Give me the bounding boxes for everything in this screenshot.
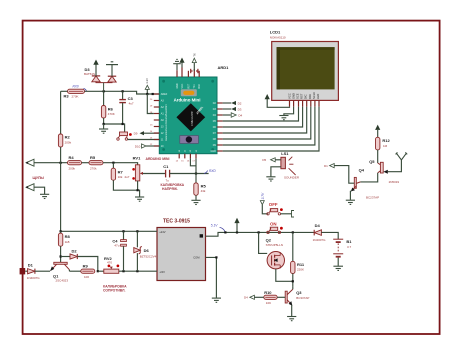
svg-text:2N5019: 2N5019 xyxy=(389,180,400,184)
wire bottom pins to C1 node xyxy=(190,158,196,165)
ground (LS1) xyxy=(266,177,275,181)
probe terminal P1 xyxy=(26,159,34,166)
svg-text:1M: 1M xyxy=(383,144,388,148)
svg-text:470: 470 xyxy=(107,260,112,264)
ground (LCD) xyxy=(279,116,288,120)
net label RXD xyxy=(204,169,216,174)
antenna AE1 xyxy=(396,152,408,160)
svg-text:D9: D9 xyxy=(134,132,138,136)
svg-text:470K: 470K xyxy=(108,112,115,116)
svg-text:4u7: 4u7 xyxy=(124,175,129,179)
pushbutton S1 xyxy=(117,132,132,140)
svg-text:200k: 200k xyxy=(65,140,72,144)
wire OFF right bracket xyxy=(281,211,294,218)
wire Q4 base xyxy=(334,166,354,184)
node probes junction xyxy=(60,162,62,164)
wire R5a to RV1 top xyxy=(103,163,138,165)
wire RV2 to TEC -24V xyxy=(119,270,157,272)
svg-text:TX: TX xyxy=(193,53,197,57)
power arrow (LCD VCC) xyxy=(265,94,270,99)
node R9/RV2 xyxy=(97,270,99,272)
ground (Q4) xyxy=(346,200,355,204)
node C4 bottom xyxy=(122,270,124,272)
terminal arrow (LS1 top) xyxy=(262,158,281,162)
wire probe2 to ground xyxy=(34,187,45,194)
ground (R5b) xyxy=(191,200,200,204)
module TEC 3-0915 xyxy=(157,218,206,280)
resistor R3 xyxy=(64,89,85,98)
svg-text:СОПРОТИВЛ.: СОПРОТИВЛ. xyxy=(103,288,126,292)
svg-text:GND: GND xyxy=(291,93,295,99)
svg-text:Q3: Q3 xyxy=(296,290,302,295)
svg-text:D4: D4 xyxy=(315,223,321,228)
wire D2 to R9/RV2 node xyxy=(77,257,98,272)
svg-text:D1: D1 xyxy=(28,263,34,268)
svg-text:STRUP5LLN: STRUP5LLN xyxy=(266,243,283,247)
svg-text:R6: R6 xyxy=(108,106,114,111)
pins ARD1 left xyxy=(154,94,160,146)
power arrow (3.7V rail) xyxy=(234,218,239,234)
node D6 bottom xyxy=(136,270,138,272)
svg-text:BC237AP: BC237AP xyxy=(366,196,379,200)
terminal arrow (Q4 base) xyxy=(324,164,334,168)
display LCD1 NOKIA5110 xyxy=(270,30,339,101)
wire D6 to LCD RST xyxy=(223,107,303,127)
svg-text:ATMEGA328P: ATMEGA328P xyxy=(191,111,194,126)
svg-text:TEC 3-0915: TEC 3-0915 xyxy=(163,218,190,224)
svg-text:100: 100 xyxy=(84,275,89,279)
wire D7 to LCD D/C xyxy=(223,107,307,133)
transistor Q4 xyxy=(351,167,379,199)
node R11 bottom xyxy=(292,280,294,282)
pins ARD1 top xyxy=(177,68,199,78)
svg-text:5.1V: 5.1V xyxy=(211,223,218,227)
svg-text:LCD1: LCD1 xyxy=(270,30,281,35)
capacitor C4 xyxy=(112,231,126,271)
capacitor C3 xyxy=(119,91,134,124)
terminal arrow row146 xyxy=(135,144,160,149)
connector tab (border) xyxy=(20,268,26,274)
resistor R12 xyxy=(375,125,390,163)
node Q2 gate xyxy=(258,231,260,233)
svg-text:D/C: D/C xyxy=(304,94,308,99)
svg-text:TX1: TX1 xyxy=(194,84,196,89)
pins ARD1 right xyxy=(217,103,223,151)
svg-text:SOUNDER: SOUNDER xyxy=(284,176,300,180)
svg-text:DIN: DIN xyxy=(308,94,312,99)
switch OFF xyxy=(267,202,283,215)
border frame xyxy=(23,21,440,334)
svg-text:BZT52C2V4: BZT52C2V4 xyxy=(140,255,157,259)
svg-text:RX0: RX0 xyxy=(199,83,201,88)
svg-text:47u: 47u xyxy=(114,244,119,248)
wire TEC COM xyxy=(206,257,217,297)
svg-text:C3: C3 xyxy=(128,96,134,101)
svg-text:RST: RST xyxy=(188,83,190,88)
ground (B1) xyxy=(333,266,343,270)
svg-text:R4: R4 xyxy=(69,155,75,160)
resistor R7 xyxy=(111,168,130,180)
node R6 bottom xyxy=(103,123,105,125)
ground (ARD1 top) xyxy=(173,59,181,70)
svg-text:VCC: VCC xyxy=(182,83,184,88)
svg-text:Q5: Q5 xyxy=(369,159,375,164)
wire button to pin row xyxy=(128,139,160,141)
svg-text:2SC4023: 2SC4023 xyxy=(56,279,69,283)
svg-text:R7: R7 xyxy=(118,170,124,175)
svg-text:D3: D3 xyxy=(238,107,242,111)
node R7 top xyxy=(112,162,114,164)
svg-text:SCLK: SCLK xyxy=(312,92,316,99)
ground (TEC COM) xyxy=(212,298,221,302)
svg-text:-24V: -24V xyxy=(159,270,165,274)
svg-text:200k: 200k xyxy=(69,167,76,171)
svg-text:GND: GND xyxy=(177,83,179,88)
svg-text:D6: D6 xyxy=(144,248,150,253)
svg-text:BAT54S: BAT54S xyxy=(84,72,95,76)
svg-text:SCE: SCE xyxy=(296,93,300,99)
ground (RV1) xyxy=(135,197,144,201)
terminal 3.7V down (OFF) xyxy=(260,192,268,214)
wire D4 to B1 xyxy=(321,232,338,239)
node rail C4 xyxy=(122,230,124,232)
svg-text:RV1: RV1 xyxy=(133,155,141,160)
capacitor C1 xyxy=(163,164,169,183)
svg-text:R10: R10 xyxy=(264,290,272,295)
resistor R5b xyxy=(194,174,207,201)
wire LCD GND to ground xyxy=(284,107,294,116)
wire Q4 emitter to ground xyxy=(349,191,352,200)
svg-text:220K: 220K xyxy=(297,268,304,272)
wire R4-R5 xyxy=(82,162,90,164)
battery B1 xyxy=(333,239,352,266)
probe terminal P2 xyxy=(26,184,34,191)
diode D3 (dual BAT54S) xyxy=(84,67,116,92)
svg-text:R12: R12 xyxy=(382,138,390,143)
power arrow (ARD1 VCC) xyxy=(179,58,184,68)
ground (R6) xyxy=(99,124,108,133)
node C3 top xyxy=(122,90,124,92)
svg-text:D4: D4 xyxy=(244,296,248,300)
svg-text:43k: 43k xyxy=(201,189,206,193)
wire RV1 bottom to ground xyxy=(138,181,140,197)
wire D8 to LCD DIN xyxy=(223,107,311,139)
svg-text:10K: 10K xyxy=(266,301,271,305)
svg-text:1k8: 1k8 xyxy=(65,240,70,244)
svg-text:3.3V: 3.3V xyxy=(145,78,149,84)
wire RV1 wiper to C1 xyxy=(143,173,166,175)
wire rail top to TEC +24V xyxy=(61,230,157,232)
svg-text:R5: R5 xyxy=(90,155,96,160)
wire GND to LCD LED xyxy=(223,107,319,151)
wire R6/C3 bottom row xyxy=(104,124,125,132)
svg-text:R9: R9 xyxy=(83,264,89,269)
svg-text:RST: RST xyxy=(300,93,304,99)
pins ARD1 bottom xyxy=(179,154,196,159)
svg-text:GND: GND xyxy=(210,150,216,153)
svg-text:1N4007G: 1N4007G xyxy=(313,238,327,242)
power bar symbol (D3 right) xyxy=(106,62,118,77)
node COM corner xyxy=(215,256,217,258)
svg-text:4u7: 4u7 xyxy=(129,102,134,106)
wire Q2 bottom xyxy=(276,269,293,281)
node rail R8 xyxy=(60,230,62,232)
node Q1 base / D2 xyxy=(60,255,62,257)
svg-text:10k: 10k xyxy=(118,175,123,179)
wire D1 to Q1 emitter xyxy=(35,270,50,272)
resistor R10 xyxy=(264,290,285,305)
svg-text:270k: 270k xyxy=(90,167,97,171)
svg-text:ЩУПЫ: ЩУПЫ xyxy=(33,176,45,180)
wire LCD VCC to power xyxy=(267,99,289,107)
resistor R6 xyxy=(101,91,114,124)
svg-text:www.arduino.cc/ArduinoBoardMin: www.arduino.cc/ArduinoBoardMini xyxy=(165,104,168,141)
terminal 3.3V arrow xyxy=(145,78,149,94)
node rail D6 xyxy=(136,230,138,232)
svg-text:ARDUINO MINI: ARDUINO MINI xyxy=(146,157,170,161)
terminal arrow (R10) xyxy=(244,295,264,299)
svg-text:Q2: Q2 xyxy=(266,237,272,242)
ground (probe2) xyxy=(40,194,49,198)
svg-text:Q4: Q4 xyxy=(359,167,365,172)
wire Q3 emitter to ground xyxy=(291,305,293,316)
resistor R8 xyxy=(58,231,70,262)
svg-text:R11: R11 xyxy=(297,262,305,267)
svg-text:D2: D2 xyxy=(238,101,242,105)
net label 5.1V xyxy=(211,223,225,232)
node D3 tap xyxy=(103,90,105,92)
wire AREF to A1 xyxy=(147,94,154,114)
svg-text:R3: R3 xyxy=(64,94,70,99)
resistor R9 xyxy=(69,264,94,279)
wire Q5 to antenna xyxy=(388,160,402,172)
svg-text:D4: D4 xyxy=(238,113,242,117)
svg-text:Arduino Mini: Arduino Mini xyxy=(174,98,201,103)
svg-text:RX0: RX0 xyxy=(73,85,79,89)
svg-text:ON: ON xyxy=(270,221,277,226)
wire LS1 bottom to ground xyxy=(271,167,281,177)
pin labels LCD1 xyxy=(287,92,320,99)
svg-text:R2: R2 xyxy=(65,135,71,140)
svg-text:270K: 270K xyxy=(72,95,79,99)
svg-text:VCC: VCC xyxy=(287,93,291,99)
resistor R2 xyxy=(58,134,71,147)
svg-text:D2: D2 xyxy=(72,249,78,254)
svg-text:ARD1: ARD1 xyxy=(218,65,230,70)
wire R3 row xyxy=(61,90,68,92)
svg-text:RXD: RXD xyxy=(209,169,216,173)
svg-text:НАПРЯЖ.: НАПРЯЖ. xyxy=(162,187,178,191)
resistor R5a xyxy=(89,155,103,170)
node C3 bottom xyxy=(122,123,124,125)
mosfet Q2 xyxy=(259,232,285,269)
speaker LS1 SOUNDER xyxy=(281,151,300,180)
transistor Q5 xyxy=(369,159,399,184)
terminal arrow row133 xyxy=(134,131,160,136)
wire D9 to LCD SCLK xyxy=(223,107,315,145)
potentiometer RV2 xyxy=(98,256,119,274)
svg-text:LS1: LS1 xyxy=(281,151,289,156)
node AREF junction xyxy=(146,93,148,95)
node second dot xyxy=(152,93,154,95)
potentiometer RV1 xyxy=(132,155,143,181)
wire R2 to probes line xyxy=(60,147,62,163)
header pins J1 xyxy=(191,69,198,73)
node RV1 ground junction xyxy=(137,189,139,191)
node 5.1V hook xyxy=(224,231,226,233)
svg-text:3.7V: 3.7V xyxy=(261,192,265,199)
op board ARD1 Arduino Mini xyxy=(159,65,229,154)
svg-text:OFF: OFF xyxy=(269,202,278,207)
svg-text:C1: C1 xyxy=(163,164,169,169)
net label RX0 xyxy=(73,85,87,92)
terminal D2 arrow xyxy=(223,101,242,106)
svg-text:1N4007G: 1N4007G xyxy=(27,276,41,280)
diode D1 xyxy=(25,263,40,281)
svg-text:3.7: 3.7 xyxy=(347,245,352,249)
svg-text:LED: LED xyxy=(316,94,320,99)
wire R7 bottom xyxy=(113,180,137,190)
ground (Q3) xyxy=(287,317,296,321)
switch ON xyxy=(267,221,283,233)
terminal D3 arrow xyxy=(223,107,242,112)
svg-text:D5: D5 xyxy=(262,158,266,162)
svg-text:NOKIA5110: NOKIA5110 xyxy=(270,36,286,40)
wire R7 column xyxy=(112,163,114,169)
pins LCD1 xyxy=(290,100,320,106)
transistor Q3 xyxy=(285,287,309,306)
svg-text:D1: D1 xyxy=(324,164,328,168)
power arrow (D3 left) xyxy=(93,60,98,77)
svg-text:B1: B1 xyxy=(346,239,352,244)
zener D6 xyxy=(134,231,157,271)
diode D4 xyxy=(313,223,327,242)
wire TEC out xyxy=(206,232,314,236)
svg-text:R8: R8 xyxy=(65,234,71,239)
wire probes line down to bottom rail xyxy=(60,163,62,232)
node C1/R5 junction xyxy=(195,172,197,174)
terminal D4 arrow xyxy=(223,113,243,118)
svg-text:COM: COM xyxy=(193,256,200,260)
terminal TX arrow xyxy=(192,53,196,71)
wire D5 to LCD SCE xyxy=(223,107,299,121)
svg-text:AREF: AREF xyxy=(161,93,168,96)
wire main left vertical xyxy=(60,91,62,134)
diode D2 xyxy=(61,249,78,260)
svg-text:+24V: +24V xyxy=(159,230,166,234)
wire Q4 collector to Q5 xyxy=(360,173,377,182)
transistor Q1 xyxy=(50,262,69,282)
wire C1 to node xyxy=(170,173,209,175)
wire probe1 to R4 xyxy=(34,162,68,164)
svg-text:D10: D10 xyxy=(135,144,141,148)
svg-text:R5: R5 xyxy=(201,184,207,189)
svg-text:7u: 7u xyxy=(166,179,170,183)
resistor R11 xyxy=(291,232,305,286)
node R11 top xyxy=(292,231,294,233)
resistor R4 xyxy=(68,155,82,170)
svg-text:BC337AP: BC337AP xyxy=(296,296,309,300)
